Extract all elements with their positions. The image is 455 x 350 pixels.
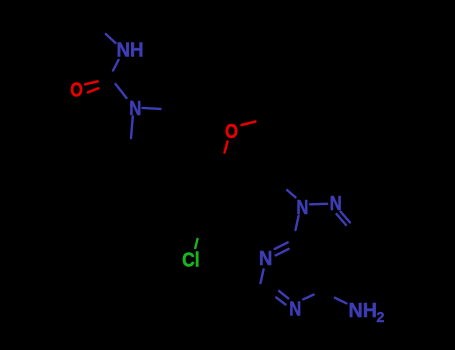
Cl bond carbon half — [198, 233, 200, 240]
svg-text:2: 2 — [376, 310, 384, 326]
bond N7-C6 (N half) — [261, 269, 264, 283]
bond Cl-benzene (Cl half) — [195, 239, 197, 248]
svg-text:N: N — [330, 193, 342, 215]
bond N-C4' azetidine — [131, 117, 133, 139]
svg-text:NH: NH — [117, 40, 144, 62]
bond O-CH2 chroman (O half, up-right) — [242, 122, 256, 126]
bond NH-C(=O) — [113, 60, 119, 71]
double bond C7a=N7 (N half) — [275, 242, 289, 255]
bond chromanCH-N1 (N half) — [287, 190, 296, 197]
pyrazolopyrimidine carbon bonds — [259, 223, 355, 298]
chroman CH to pyrazole N1 (carbon half) — [278, 182, 287, 190]
azetidine ring — [131, 109, 187, 171]
bond O-benzene (O half, down) — [225, 142, 228, 153]
svg-text:N: N — [129, 98, 141, 120]
svg-text:Cl: Cl — [182, 250, 200, 272]
double bond C=O (O half) — [85, 81, 98, 92]
chroman O ring — [222, 118, 288, 190]
bond N5-C4 (N half) — [303, 295, 313, 300]
benzene ring — [175, 163, 246, 232]
carbonyl C junction — [98, 71, 116, 89]
svg-text:O: O — [225, 121, 238, 143]
svg-text:N: N — [259, 248, 273, 270]
bond N-C2' azetidine — [142, 108, 160, 109]
double bond N2=C3 — [337, 212, 351, 226]
double bond C6=N5 (N half) — [276, 291, 288, 305]
svg-text:O: O — [70, 80, 83, 102]
svg-text:NH: NH — [349, 300, 378, 322]
methyl to amide NH (carbon half) — [89, 13, 106, 35]
bond N1-N2 — [310, 203, 327, 206]
bond CH3-NH (N half) — [106, 34, 116, 43]
bond C(=O)-N azetidine — [116, 84, 127, 98]
svg-text:N: N — [296, 197, 308, 219]
bond N1-C7a (N half) — [296, 216, 299, 230]
bond C4-NH2 (N half) — [335, 298, 347, 304]
svg-text:N: N — [289, 299, 301, 321]
